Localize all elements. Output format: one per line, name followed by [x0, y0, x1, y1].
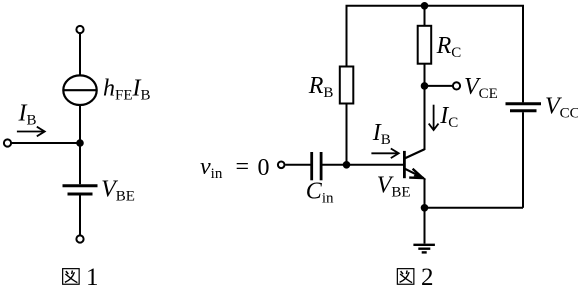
svg-text:vin: vin	[200, 154, 223, 182]
svg-text:Cin: Cin	[306, 179, 334, 207]
svg-text:VBE: VBE	[101, 177, 135, 205]
svg-text:hFEIB: hFEIB	[103, 76, 151, 104]
svg-text:IB: IB	[372, 120, 391, 148]
svg-text:RC: RC	[436, 33, 462, 61]
svg-text:1: 1	[86, 264, 99, 291]
svg-text:VCC: VCC	[545, 93, 578, 121]
svg-text:IB: IB	[18, 101, 37, 129]
svg-text:VCE: VCE	[464, 74, 498, 102]
svg-text:RB: RB	[308, 73, 334, 101]
svg-text:2: 2	[421, 264, 434, 291]
svg-text:IC: IC	[439, 103, 458, 131]
svg-text:0: 0	[258, 155, 270, 181]
svg-text:=: =	[236, 154, 250, 180]
